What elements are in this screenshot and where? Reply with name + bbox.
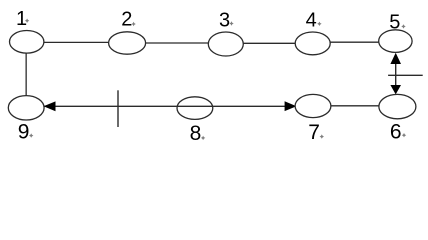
node 3 ellipse (208, 32, 243, 56)
node 1 ellipse (10, 31, 44, 54)
node 4 ellipse (295, 32, 330, 55)
svg-text:8: 8 (190, 122, 202, 145)
arrowhead into node 7 (285, 101, 297, 111)
wire 1-9 (25, 52, 27, 97)
wire 1-2 (43, 41, 110, 43)
wire 7-6 (330, 105, 380, 107)
arrowhead into node 9 (44, 101, 56, 111)
wire 2-3 (144, 42, 210, 44)
svg-text:5: 5 (389, 12, 400, 34)
svg-text:1: 1 (16, 8, 27, 30)
svg-text:3: 3 (219, 9, 230, 31)
wire 3-4 (242, 42, 296, 44)
vertical double arrow 5-6 shaft (395, 56, 397, 91)
label 5 anchor mark (401, 24, 405, 28)
svg-text:6: 6 (390, 120, 402, 143)
wire 9-7 arrow shaft (44, 105, 296, 107)
arrowhead up into node 5 (390, 53, 401, 64)
node 9 ellipse (8, 96, 44, 120)
crossbar on double arrow (388, 74, 423, 76)
tick mark on wire 9-7 (117, 90, 119, 127)
wire 4-5 (329, 41, 380, 43)
svg-text:7: 7 (308, 121, 320, 144)
label 9 anchor mark (29, 133, 33, 137)
label 6 anchor mark (402, 133, 406, 137)
label 8 anchor mark (201, 136, 205, 140)
svg-text:2: 2 (121, 9, 132, 31)
node 8 ellipse (line passes through) (177, 97, 213, 120)
label 2 anchor mark (131, 22, 135, 26)
arrowhead down into node 6 (390, 85, 401, 94)
label 3 anchor mark (229, 21, 233, 25)
label 7 anchor mark (320, 134, 324, 138)
svg-text:4: 4 (306, 10, 317, 32)
svg-text:9: 9 (18, 121, 30, 144)
label 4 anchor mark (317, 22, 321, 26)
node 5 ellipse (379, 30, 412, 53)
label 1 anchor mark (25, 19, 29, 23)
node 6 ellipse (379, 94, 416, 118)
node 7 ellipse (295, 94, 331, 117)
node 2 ellipse (109, 32, 146, 54)
